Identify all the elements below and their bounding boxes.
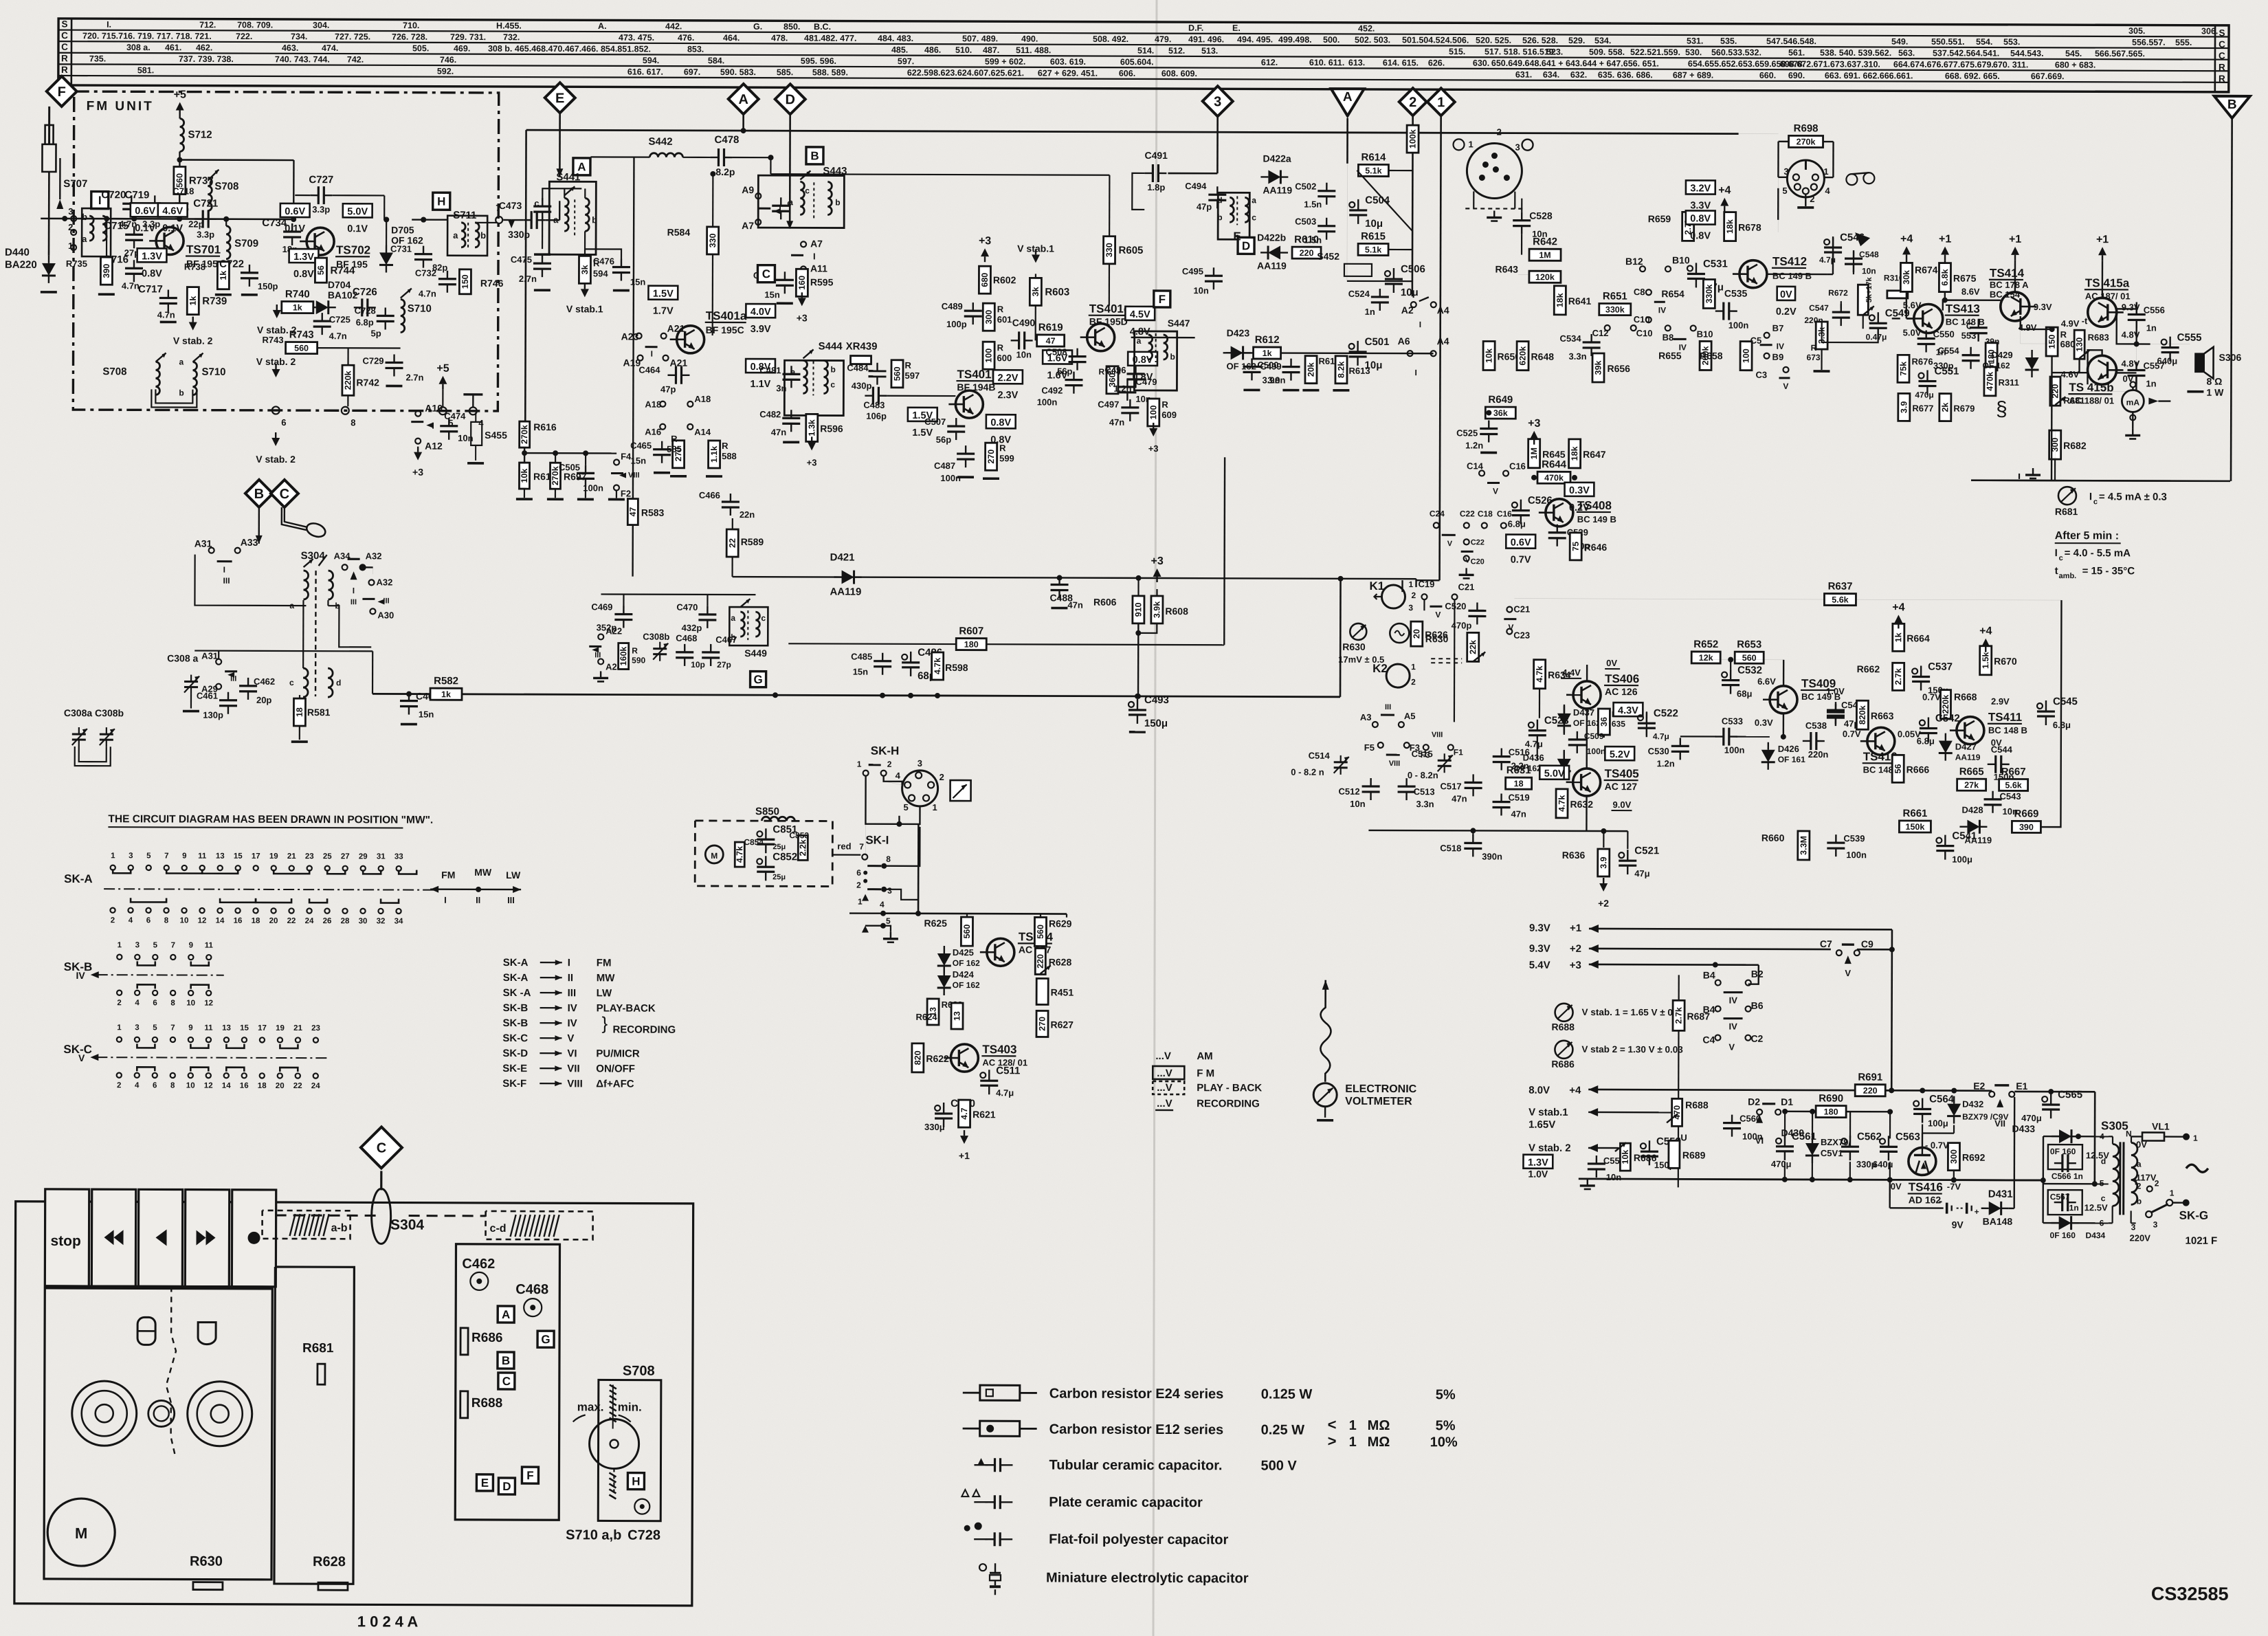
tape reel icon <box>1846 174 1857 185</box>
contacts C12 C10 b <box>1605 325 1610 331</box>
resistor C854 4.7k <box>735 842 744 867</box>
resistor R646 75 <box>1570 533 1581 560</box>
svg-text:D1: D1 <box>1781 1096 1793 1107</box>
svg-text:47n: 47n <box>1109 417 1125 428</box>
svg-text:max.: max. <box>577 1400 604 1413</box>
svg-text:0 - 8.2n: 0 - 8.2n <box>1408 770 1438 780</box>
svg-text:K1: K1 <box>1369 579 1384 593</box>
+1 above R675 <box>1941 247 1949 255</box>
wire SK-I to TS404 <box>865 824 866 860</box>
svg-text:2: 2 <box>940 772 944 782</box>
capacitor C540b <box>1827 711 1845 713</box>
svg-text:478.: 478. <box>771 33 788 43</box>
resistor R691 220 on rail <box>1855 1085 1885 1096</box>
svg-text:513.: 513. <box>1201 46 1218 56</box>
svg-text:mA: mA <box>2126 397 2140 407</box>
svg-text:8.0V: 8.0V <box>1528 1085 1550 1096</box>
resistor R678 18k <box>1724 212 1736 241</box>
svg-text:V: V <box>1783 382 1788 391</box>
svg-text:D432: D432 <box>1962 1099 1983 1109</box>
svg-text:15n: 15n <box>764 289 780 300</box>
capacitor C716 4.7n <box>125 267 143 269</box>
capacitor C507 56p <box>947 425 965 427</box>
svg-text:556.557.: 556.557. <box>2132 38 2166 47</box>
wire right feedback box <box>2041 600 2061 827</box>
svg-text:24: 24 <box>305 917 314 925</box>
svg-text:470k: 470k <box>1985 372 1994 391</box>
svg-text:1: 1 <box>1469 139 1474 149</box>
svg-text:R630: R630 <box>1342 641 1366 652</box>
svg-text:100k: 100k <box>1408 129 1418 148</box>
svg-text:0.3V: 0.3V <box>1755 718 1773 728</box>
svg-text:c: c <box>1252 212 1256 222</box>
chassis outline <box>14 1202 693 1606</box>
svg-text:485.: 485. <box>891 45 908 55</box>
svg-text:C539: C539 <box>1843 833 1865 843</box>
S708 trimmer circle <box>589 1419 638 1468</box>
svg-text:100: 100 <box>1148 405 1158 419</box>
svg-text:430p: 430p <box>852 381 872 391</box>
svg-text:850.: 850. <box>783 22 800 32</box>
svg-text:0.8V: 0.8V <box>1690 213 1711 224</box>
svg-text:a: a <box>2137 1159 2142 1169</box>
svg-text:c: c <box>289 678 294 687</box>
svg-text:BC 149 B: BC 149 B <box>1772 271 1812 281</box>
svg-text:8.2k: 8.2k <box>1336 362 1346 378</box>
resistor R744 56 <box>315 258 326 283</box>
svg-text:C520: C520 <box>1445 601 1466 611</box>
svg-text:3.3V: 3.3V <box>1690 200 1711 211</box>
svg-text:I: I <box>1419 320 1421 329</box>
resistor R743 560 <box>286 342 318 353</box>
svg-text:R662: R662 <box>1857 663 1880 674</box>
svg-text:3: 3 <box>1408 603 1413 612</box>
svg-text:5.0V: 5.0V <box>1544 769 1565 780</box>
voltage 4.0V 3.9V <box>746 304 775 318</box>
resistor R655 200k <box>1700 341 1711 370</box>
svg-text:C: C <box>61 30 68 41</box>
svg-text:150: 150 <box>460 274 470 289</box>
resistor R735 390 <box>100 257 112 285</box>
V stab.2 arrow <box>189 322 197 331</box>
svg-text:22p: 22p <box>188 219 204 230</box>
svg-text:C532: C532 <box>1737 665 1762 676</box>
svg-text:C: C <box>1966 321 1973 331</box>
svg-text:R742: R742 <box>356 377 379 388</box>
svg-text:22n: 22n <box>740 509 755 520</box>
svg-text:0.2V: 0.2V <box>1776 307 1797 318</box>
svg-text:S442: S442 <box>649 136 673 148</box>
resistor R670 1.5k <box>1980 646 1992 675</box>
coil S710 <box>401 300 405 333</box>
svg-text:R688: R688 <box>1685 1099 1709 1110</box>
svg-text:B12: B12 <box>1625 256 1643 267</box>
svg-text:Carbon resistor E12 series: Carbon resistor E12 series <box>1049 1422 1224 1437</box>
svg-text:R658: R658 <box>1700 350 1723 361</box>
capacitor C461 130p <box>219 699 237 701</box>
svg-text:A30: A30 <box>377 610 394 620</box>
voltage 0.6V 0.1V TS702 <box>280 203 310 217</box>
svg-text:SK-A: SK-A <box>503 957 529 969</box>
contacts C24 C22 C18 C16 row <box>1434 522 1439 528</box>
svg-text:3: 3 <box>1214 94 1221 109</box>
contacts B4 B2 <box>1715 980 1721 986</box>
voltage 5.2V TS405 <box>1605 747 1634 760</box>
resistor R663 820k <box>1856 700 1868 729</box>
svg-text:R743: R743 <box>263 335 284 345</box>
svg-text:C: C <box>61 42 68 52</box>
voltage 4.5V 4.8V <box>1125 307 1155 320</box>
svg-text:R674: R674 <box>1915 264 1938 275</box>
svg-text:R670: R670 <box>1994 656 2017 667</box>
svg-text:10n: 10n <box>1016 349 1032 360</box>
svg-text:MW: MW <box>474 867 492 878</box>
svg-text:BF 195C: BF 195C <box>706 324 744 335</box>
svg-text:+4: +4 <box>1718 185 1731 197</box>
svg-text:1k: 1k <box>219 271 228 280</box>
svg-text:588: 588 <box>722 451 737 461</box>
svg-text:515.: 515. <box>1449 47 1465 56</box>
resistor R682 300 <box>2049 430 2061 459</box>
svg-text:-U: -U <box>1678 1132 1687 1142</box>
resistor R636 3.9 <box>1598 849 1610 876</box>
transistor TS412 BC149B <box>1739 261 1767 288</box>
svg-text:585: 585 <box>667 444 682 454</box>
resistor R661 150k <box>1899 821 1931 832</box>
svg-text:III: III <box>351 598 357 606</box>
svg-text:1.1V: 1.1V <box>750 379 770 390</box>
svg-text:C5V1: C5V1 <box>1821 1148 1843 1158</box>
capacitor C510 330u <box>935 1105 940 1111</box>
capacitor C543 10n <box>1984 798 2002 800</box>
svg-text:680: 680 <box>980 273 990 287</box>
button record <box>232 1190 276 1287</box>
contact A7 <box>755 219 761 225</box>
resistor R652 12k <box>1691 652 1720 663</box>
resistor R625 560 <box>961 917 972 946</box>
svg-text:8: 8 <box>351 417 355 428</box>
svg-text:6.8μ: 6.8μ <box>1508 519 1526 529</box>
capacitor C511 4.7u <box>980 1072 986 1078</box>
capacitor C719 3.3p <box>146 203 164 205</box>
svg-text:R649: R649 <box>1488 394 1513 406</box>
+3 arrow small <box>414 452 422 461</box>
contacts F5 F3 <box>1378 742 1383 748</box>
wire <box>113 218 295 220</box>
svg-text:545.: 545. <box>2065 49 2082 58</box>
svg-text:100n: 100n <box>1728 320 1749 331</box>
svg-text:1k: 1k <box>293 303 302 313</box>
svg-text:D705: D705 <box>391 224 414 235</box>
capacitor C473 330p <box>531 211 533 229</box>
svg-text:100n: 100n <box>1846 850 1867 860</box>
svg-text:502. 503.: 502. 503. <box>1355 35 1390 45</box>
svg-text:C461: C461 <box>197 691 218 701</box>
svg-text:390: 390 <box>2019 822 2034 832</box>
svg-text:A12: A12 <box>425 441 443 452</box>
svg-text:1: 1 <box>111 852 115 860</box>
svg-text:R744: R744 <box>330 265 355 276</box>
svg-text:734.: 734. <box>291 32 307 41</box>
svg-text:1.0V: 1.0V <box>1528 1169 1548 1180</box>
F box S447 <box>1154 291 1170 307</box>
resistor R619 47 <box>1037 335 1065 346</box>
svg-text:D440: D440 <box>5 247 30 258</box>
svg-text:732.: 732. <box>503 32 520 42</box>
svg-text:C24: C24 <box>1430 509 1445 518</box>
svg-text:C470: C470 <box>676 602 698 612</box>
svg-text:463.: 463. <box>282 43 298 53</box>
wire to pin 7 <box>412 219 447 221</box>
contacts B8 B10 IV <box>1665 325 1671 331</box>
svg-text:220: 220 <box>1036 954 1045 969</box>
svg-text:TS 415a: TS 415a <box>2085 276 2130 289</box>
svg-text:C563: C563 <box>1895 1131 1920 1142</box>
svg-text:742.: 742. <box>347 55 364 65</box>
svg-text:1 0 2 4 A: 1 0 2 4 A <box>357 1613 419 1630</box>
svg-text:I: I <box>2055 547 2058 559</box>
C box <box>757 265 775 283</box>
svg-text:10n: 10n <box>1862 266 1876 276</box>
svg-text:C492: C492 <box>1041 385 1063 395</box>
svg-text:5.1k: 5.1k <box>1365 245 1381 254</box>
svg-text:5k+17k: 5k+17k <box>1865 276 1874 302</box>
S455 dashed trimmer <box>471 422 482 445</box>
connector C diamond <box>380 1171 382 1190</box>
svg-text:R663: R663 <box>1871 710 1894 721</box>
bandfilter S445 <box>1218 192 1249 239</box>
resistor R600 100 <box>983 342 994 369</box>
svg-text:698.672.671.673.637.310.: 698.672.671.673.637.310. <box>1780 59 1880 69</box>
svg-text:553.: 553. <box>2003 37 2020 47</box>
svg-text:10n: 10n <box>1606 1172 1622 1182</box>
svg-text:B10: B10 <box>1672 254 1690 265</box>
capacitor C482 47n <box>782 417 800 419</box>
svg-text:33: 33 <box>394 852 403 861</box>
svg-text:2: 2 <box>111 916 115 925</box>
svg-text:R: R <box>2060 329 2067 340</box>
svg-text:S304: S304 <box>390 1217 424 1232</box>
svg-text:C715: C715 <box>104 220 129 232</box>
svg-text:2: 2 <box>2155 1179 2159 1189</box>
svg-text:5: 5 <box>2100 1178 2104 1188</box>
svg-text:535.: 535. <box>1720 36 1737 46</box>
svg-text:C20: C20 <box>1471 557 1485 566</box>
svg-text:C507: C507 <box>924 417 946 427</box>
svg-text:150k: 150k <box>1905 822 1924 832</box>
capacitor C521 47u <box>1619 852 1624 858</box>
svg-text:160k: 160k <box>619 647 628 666</box>
svg-text:39k: 39k <box>1593 360 1603 375</box>
svg-text:18: 18 <box>258 1082 267 1090</box>
resistor R683 130 -t <box>2074 330 2084 359</box>
svg-text:1: 1 <box>1437 95 1445 110</box>
capacitor C554 330p <box>1962 354 1980 356</box>
FM unit bottom pins <box>272 406 280 414</box>
svg-text:D430: D430 <box>1781 1127 1805 1138</box>
svg-text:1M: 1M <box>1539 250 1550 260</box>
component index table <box>58 19 2229 92</box>
svg-text:+3: +3 <box>1150 555 1163 567</box>
D box <box>1238 237 1254 254</box>
svg-text:9: 9 <box>188 1024 192 1032</box>
svg-text:R646: R646 <box>1584 542 1608 553</box>
resistor R662 2.7k <box>1893 663 1904 690</box>
svg-text:4.7μ: 4.7μ <box>1653 731 1669 741</box>
svg-text:R615: R615 <box>1361 230 1386 242</box>
svg-text:A7: A7 <box>810 238 823 249</box>
svg-text:47p: 47p <box>660 384 676 395</box>
svg-text:+5: +5 <box>174 89 186 100</box>
svg-text:R582: R582 <box>434 675 458 687</box>
svg-text:b: b <box>830 364 835 374</box>
svg-text:R738: R738 <box>184 262 205 272</box>
svg-text:V stab. 2: V stab. 2 <box>1528 1142 1571 1154</box>
svg-text:10: 10 <box>186 1082 195 1090</box>
capacitor C474 10n <box>440 425 458 427</box>
svg-text:C731: C731 <box>390 243 412 254</box>
svg-text:C517: C517 <box>1441 781 1462 791</box>
svg-text:1M: 1M <box>1529 447 1539 459</box>
record head K1 <box>1381 585 1405 608</box>
capacitor C487 100n <box>957 452 975 454</box>
svg-text:4.7n: 4.7n <box>329 331 347 341</box>
svg-text:b: b <box>82 212 87 222</box>
svg-text:47: 47 <box>1046 336 1056 346</box>
svg-text:...V: ...V <box>1155 1050 1171 1062</box>
svg-text:b: b <box>1217 212 1222 222</box>
svg-text:III: III <box>507 895 515 905</box>
svg-text:4.0V: 4.0V <box>751 307 771 318</box>
contacts A16 A14 <box>660 424 665 430</box>
resistor R641 18k <box>1554 286 1566 315</box>
svg-text:3.3M: 3.3M <box>1799 836 1808 855</box>
svg-text:7: 7 <box>859 842 864 852</box>
wire oscillator out <box>218 651 219 659</box>
capacitor C495 10n <box>1205 275 1223 277</box>
svg-text:612.: 612. <box>1261 58 1278 67</box>
resistor R667 5.6k <box>1999 779 2028 791</box>
svg-text:526. 528.: 526. 528. <box>1522 36 1558 45</box>
svg-text:1.65V: 1.65V <box>1528 1119 1555 1131</box>
svg-text:C476: C476 <box>593 256 614 266</box>
svg-text:C720: C720 <box>101 189 126 201</box>
svg-text:AA119: AA119 <box>1955 753 1981 762</box>
svg-text:Δf+AFC: Δf+AFC <box>596 1078 634 1090</box>
capacitor C530 1.2n <box>1671 745 1689 747</box>
svg-text:SK-C: SK-C <box>502 1032 528 1044</box>
capacitor C731 82p <box>414 253 432 255</box>
+3 under R595 <box>798 298 806 306</box>
svg-text:14: 14 <box>216 917 225 925</box>
svg-text:C3: C3 <box>1755 370 1767 380</box>
svg-text:B7: B7 <box>1772 323 1784 333</box>
bandfilter B box S443 <box>806 147 823 164</box>
svg-text:C475: C475 <box>511 254 532 265</box>
capacitor C545 6.8u <box>2037 703 2043 709</box>
svg-text:10n: 10n <box>1193 285 1209 296</box>
svg-text:R628: R628 <box>1049 956 1072 967</box>
svg-text:E2: E2 <box>1973 1081 1985 1092</box>
oscillator coil S449 <box>729 607 768 645</box>
capacitor C558 10n <box>1588 1162 1605 1164</box>
svg-text:R667: R667 <box>2001 766 2026 777</box>
svg-text:C21: C21 <box>1458 582 1474 592</box>
svg-text:5p: 5p <box>370 328 381 338</box>
wire TS412 to TS413 <box>1827 274 1915 318</box>
S708 screw slot <box>610 1384 616 1389</box>
svg-text:505.: 505. <box>412 43 429 53</box>
svg-text:M: M <box>75 1525 87 1542</box>
svg-text:2.3V: 2.3V <box>997 390 1018 401</box>
svg-text:614. 615.: 614. 615. <box>1383 58 1419 67</box>
resistor R677 3.9 <box>1898 393 1910 421</box>
svg-text:MW: MW <box>597 972 616 984</box>
svg-text:SK-F: SK-F <box>502 1078 526 1090</box>
board letter A <box>498 1306 514 1323</box>
svg-text:5: 5 <box>153 1024 157 1032</box>
svg-text:IV: IV <box>1728 1021 1737 1032</box>
svg-text:I: I <box>223 565 225 575</box>
svg-text:608. 609.: 608. 609. <box>1161 69 1197 78</box>
svg-text:D.F.: D.F. <box>1188 23 1203 33</box>
board letter G <box>537 1331 554 1347</box>
svg-text:...V: ...V <box>1157 1082 1172 1094</box>
svg-text:474.: 474. <box>322 43 338 53</box>
svg-text:56p: 56p <box>1057 366 1073 377</box>
svg-text:1: 1 <box>857 760 862 769</box>
svg-text:599: 599 <box>999 453 1014 463</box>
svg-text:560: 560 <box>962 925 972 939</box>
button rewind <box>91 1189 135 1286</box>
svg-text:V stab.1: V stab.1 <box>1017 243 1054 254</box>
svg-text:D704: D704 <box>328 279 351 290</box>
svg-text:C479: C479 <box>1135 377 1157 387</box>
svg-text:R651: R651 <box>1603 291 1627 302</box>
svg-text:PLAY - BACK: PLAY - BACK <box>1197 1082 1262 1094</box>
resistor R679 2k <box>1939 394 1951 421</box>
svg-text:487.: 487. <box>983 45 999 55</box>
resistor R311 470k <box>1984 367 1996 396</box>
svg-text:2: 2 <box>117 999 121 1007</box>
svg-text:R688: R688 <box>471 1396 502 1411</box>
svg-text:100p: 100p <box>946 319 967 329</box>
svg-text:c-d: c-d <box>490 1223 507 1235</box>
svg-text:5: 5 <box>1782 186 1787 196</box>
svg-text:SK-I: SK-I <box>865 834 889 847</box>
capacitor C553 39n <box>1970 327 1988 329</box>
svg-text:1: 1 <box>932 802 937 813</box>
svg-text:C469: C469 <box>591 601 612 612</box>
wire R616 R617 column <box>520 421 530 447</box>
svg-text:A: A <box>1343 90 1353 104</box>
svg-text:C521: C521 <box>1634 845 1659 856</box>
svg-text:A16: A16 <box>645 427 661 437</box>
capacitor C560 100n <box>1723 1122 1741 1124</box>
svg-text:b: b <box>179 388 184 398</box>
svg-text:4: 4 <box>896 771 901 781</box>
voltage 0.3V 0.2V TS408 <box>1565 483 1594 496</box>
svg-text:C308 a: C308 a <box>167 652 198 663</box>
svg-text:270: 270 <box>1037 1017 1047 1031</box>
svg-text:OF 162: OF 162 <box>1982 361 2010 371</box>
svg-text:8: 8 <box>886 854 891 864</box>
rectifier D433 OF160 with C566 <box>2014 1091 2095 1093</box>
svg-text:D429: D429 <box>1991 350 2012 360</box>
capacitor C557 1n <box>2128 369 2146 371</box>
V stab.1 arrow <box>581 289 589 297</box>
svg-text:508. 492.: 508. 492. <box>1093 34 1129 44</box>
